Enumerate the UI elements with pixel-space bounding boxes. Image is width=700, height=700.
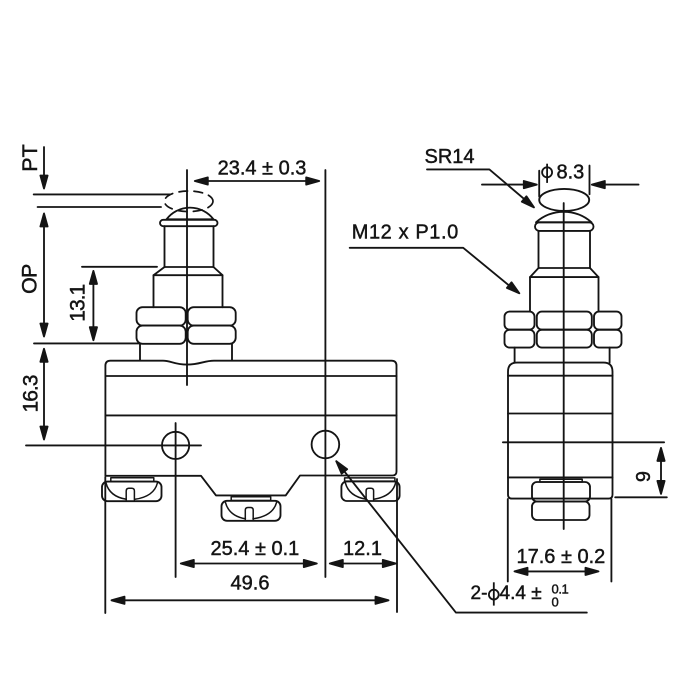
svg-text:4.4 ±: 4.4 ± bbox=[500, 583, 542, 604]
free position line 2 bbox=[38, 206, 161, 208]
2-dia4.4 leader line bbox=[336, 461, 587, 612]
right view step line bbox=[539, 267, 591, 269]
17.6 dimension line bbox=[515, 568, 599, 575]
right view hex nut row 1 bbox=[505, 312, 622, 330]
svg-text:16.3: 16.3 bbox=[20, 375, 43, 412]
label dia 8.3 bbox=[542, 161, 584, 183]
terminal screw center: clamp bar bbox=[231, 497, 271, 501]
right view flare bbox=[530, 268, 599, 277]
right mounting hole bbox=[312, 431, 340, 459]
plunger upper cylinder (left view) bbox=[165, 226, 214, 267]
svg-text:12.1: 12.1 bbox=[343, 538, 382, 560]
PT arrow bbox=[40, 147, 47, 189]
terminal screw right: head bbox=[341, 481, 399, 501]
right view bottom screw row 2 bbox=[532, 502, 590, 521]
plunger step line (left view) bbox=[165, 266, 214, 268]
OP dimension arrow bbox=[40, 214, 47, 337]
terminal screw left: head arcs bbox=[106, 483, 157, 499]
terminal screw right: clamp bar bbox=[345, 478, 395, 481]
left hole vertical centerline bbox=[175, 423, 177, 577]
hex nut row 1 (left view) bbox=[137, 307, 236, 325]
right view ball button bbox=[539, 189, 589, 211]
9 bottom extension line bbox=[615, 496, 667, 498]
23.4 dimension line bbox=[195, 177, 319, 184]
svg-text:9: 9 bbox=[633, 471, 655, 482]
extension line through right hole bbox=[324, 170, 326, 577]
terminal screw right: slot bbox=[366, 488, 374, 500]
plunger centerline (left view) bbox=[186, 170, 188, 385]
terminal screw left: head bbox=[102, 482, 162, 502]
right view flange ring bbox=[535, 222, 594, 231]
case right edge extension line bbox=[396, 479, 398, 612]
M12 leader line bbox=[350, 248, 520, 293]
left hole horizontal centerline / 16.3 bottom extension bbox=[26, 444, 201, 446]
svg-text:25.4 ± 0.1: 25.4 ± 0.1 bbox=[210, 538, 299, 560]
svg-text:SR14: SR14 bbox=[424, 146, 474, 168]
right view bottom screw row 1 bbox=[532, 482, 590, 502]
svg-text:0: 0 bbox=[552, 595, 559, 610]
16.3 dimension arrow bbox=[40, 349, 47, 440]
svg-text:M12 x P1.0: M12 x P1.0 bbox=[352, 222, 459, 244]
threaded bushing sides (left view) bbox=[154, 275, 223, 307]
49.6 dimension line bbox=[112, 597, 389, 604]
svg-text:49.6: 49.6 bbox=[231, 573, 270, 595]
bushing base (left view) bbox=[140, 344, 232, 361]
svg-text:8.3: 8.3 bbox=[557, 161, 585, 183]
right view body line A bbox=[508, 375, 613, 377]
12.1 dimension line bbox=[330, 560, 396, 567]
9 dimension arrow bbox=[657, 448, 664, 494]
case horizontal line A bbox=[105, 375, 396, 377]
svg-text:13.1: 13.1 bbox=[67, 285, 90, 322]
25.4 dimension line bbox=[181, 560, 317, 567]
plunger flare (left view) bbox=[154, 267, 223, 275]
SR14 leader line bbox=[427, 169, 534, 207]
right view body outline bbox=[508, 363, 613, 499]
16.3 top extension line bbox=[34, 342, 140, 344]
right view body line C bbox=[508, 476, 613, 478]
right view dome arc bbox=[536, 212, 592, 222]
left mounting hole bbox=[162, 432, 189, 459]
free position line 1 bbox=[34, 193, 170, 195]
right view threaded bushing bbox=[530, 277, 599, 312]
button free position dashed ellipse bbox=[164, 191, 213, 212]
plunger dome (left view) bbox=[167, 208, 214, 220]
right view body line B bbox=[508, 413, 613, 415]
terminal screw center: head arcs bbox=[225, 502, 276, 519]
9 top extension line across body bbox=[503, 441, 664, 443]
right view centerline bbox=[563, 203, 565, 529]
terminal screw right: head arcs bbox=[345, 483, 395, 499]
right view neck below nut bbox=[515, 348, 610, 363]
dia8.3 extension lines bbox=[539, 166, 589, 197]
svg-text:2-: 2- bbox=[471, 583, 488, 604]
terminal screw center: head bbox=[222, 501, 281, 521]
terminal screw left: slot bbox=[126, 488, 134, 500]
case horizontal line B bbox=[105, 414, 396, 416]
dia8.3 arrows bbox=[482, 181, 639, 188]
right view hex nut row 2 bbox=[505, 330, 622, 348]
switch case outline (left view) bbox=[105, 361, 396, 496]
label 2-dia4.4 with tolerance bbox=[471, 582, 569, 610]
svg-text:OP: OP bbox=[17, 264, 41, 294]
right view bottom screw bar bbox=[540, 479, 582, 482]
case left edge extension line bbox=[104, 477, 106, 613]
right view upper cylinder bbox=[539, 231, 591, 268]
13.1 extension line bbox=[82, 266, 157, 268]
terminal screw center: slot bbox=[245, 508, 253, 520]
svg-text:PT: PT bbox=[18, 144, 42, 171]
svg-text:23.4 ± 0.3: 23.4 ± 0.3 bbox=[218, 158, 307, 180]
17.6 extension lines bbox=[508, 499, 612, 582]
terminal screw left: clamp bar bbox=[111, 478, 154, 482]
13.1 dimension arrow bbox=[90, 271, 97, 340]
plunger flange ring (left view) bbox=[160, 220, 218, 226]
svg-text:17.6 ± 0.2: 17.6 ± 0.2 bbox=[516, 546, 605, 568]
hex nut row 2 (left view) bbox=[137, 326, 236, 344]
